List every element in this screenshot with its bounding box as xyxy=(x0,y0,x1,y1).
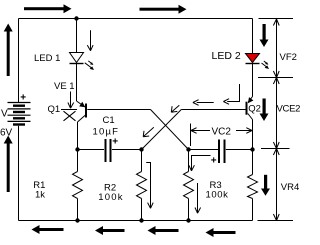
svg-text:C1: C1 xyxy=(103,115,115,126)
wire top rail xyxy=(19,18,253,20)
node junction dot C1/R2 xyxy=(139,147,143,151)
current arrow thick right middle (down, VCE2) xyxy=(260,99,269,122)
svg-text:Q1: Q1 xyxy=(48,104,61,115)
svg-text:+: + xyxy=(20,93,26,104)
svg-text:V: V xyxy=(1,109,8,120)
svg-text:100k: 100k xyxy=(98,192,123,203)
svg-text:6V: 6V xyxy=(0,128,13,139)
current arrow thick bottom 4 (left) xyxy=(206,228,236,237)
wire cross-coupling diagonal A (Q1 base to C2/R3 node) xyxy=(151,110,189,150)
resistor R3 xyxy=(184,150,194,221)
annotation arrow current down beside LED1 xyxy=(87,30,93,51)
annotation arrow current down beside R3 xyxy=(195,183,201,213)
dimension arrow VR4 xyxy=(273,149,279,221)
resistor R2 xyxy=(137,150,147,221)
dimension arrow VCE2 xyxy=(273,78,279,149)
annotation bent arrow C2 to R3 xyxy=(189,156,211,171)
capacitor C1 xyxy=(106,139,111,162)
resistor R4 xyxy=(248,150,258,221)
svg-text:10µF: 10µF xyxy=(93,127,120,138)
wire C2 left xyxy=(189,149,219,151)
annotation left arrow above Q2 base wire xyxy=(193,100,214,106)
current arrow thick top left xyxy=(24,4,72,13)
svg-text:1k: 1k xyxy=(35,190,45,201)
wire Q1 base to node xyxy=(87,109,150,111)
current arrow thick left upper (up) xyxy=(4,24,13,77)
current arrow thick bottom 3 (left) xyxy=(148,226,179,235)
dimension tick C2 level xyxy=(261,148,290,150)
wire Q2 collector down xyxy=(252,120,254,150)
svg-text:+: + xyxy=(211,156,217,167)
transistor Q1 xyxy=(77,101,87,122)
current arrow thick right upper (down, VF2) xyxy=(260,24,269,47)
wire C2 right xyxy=(226,149,253,151)
svg-text:+: + xyxy=(112,137,118,148)
annotation arrow on diagonal B lower xyxy=(143,127,154,137)
wire left side lower (battery -) xyxy=(18,126,20,221)
annotation bent arrow into Q2 base xyxy=(223,84,239,104)
dimension VC2 left tick xyxy=(190,124,192,147)
dimension tick bottom right xyxy=(258,220,294,222)
dimension VC2 arrows xyxy=(191,128,252,134)
wire cross-coupling diagonal B (Q2 base to C1/R2 node) xyxy=(142,110,182,150)
svg-text:LED 1: LED 1 xyxy=(34,53,60,64)
current arrow thick bottom 2 (left) xyxy=(95,226,125,235)
transistor Q2 xyxy=(247,97,254,120)
wire LED1 branch from top rail xyxy=(76,19,78,53)
wire LED2 to Q2 emitter xyxy=(252,64,254,97)
svg-text:VF2: VF2 xyxy=(280,52,297,63)
wire Q1 collector down xyxy=(77,122,79,150)
LED 2 (red) xyxy=(246,54,270,70)
current arrow thick right lower (down, VR4) xyxy=(261,175,270,196)
current arrow thick bottom 1 (left) xyxy=(32,225,64,234)
wire right side top (rail to LED2) xyxy=(252,19,254,54)
svg-text:VR4: VR4 xyxy=(281,182,299,193)
svg-text:Q2: Q2 xyxy=(248,104,261,115)
dimension tick top right xyxy=(259,18,294,20)
resistor R1 xyxy=(73,150,83,221)
svg-text:VCE2: VCE2 xyxy=(277,104,301,115)
svg-text:100k: 100k xyxy=(206,190,229,201)
wire bottom rail xyxy=(19,220,253,222)
svg-text:LED 2: LED 2 xyxy=(212,50,241,62)
current arrow thick left lower (up) xyxy=(4,136,13,193)
wire C1 right xyxy=(112,149,142,151)
node junction dot Q1 collector / C1 xyxy=(75,147,79,151)
svg-text:VC2: VC2 xyxy=(212,127,232,138)
wire left side upper (battery +) xyxy=(18,19,20,103)
annotation X mark below Q1 base line xyxy=(64,111,76,121)
node junction dot bottom R2 xyxy=(139,218,143,222)
wire LED1 to Q1 emitter xyxy=(76,64,78,101)
dimension tick LED2 bottom xyxy=(258,77,293,79)
annotation arrow on diagonal B upper xyxy=(171,105,179,112)
node junction dot C2/R3 xyxy=(186,147,190,151)
dimension arrow VF2 xyxy=(273,19,279,78)
wire Q2 base horizontal xyxy=(181,109,245,111)
wire C1 left xyxy=(78,149,105,151)
LED 1 xyxy=(70,53,95,71)
node junction dot top (LED1 branch) xyxy=(74,16,78,20)
annotation arrow VE1 down xyxy=(68,92,74,109)
current arrow thick top right xyxy=(140,5,187,14)
node junction dot bottom R1 xyxy=(75,218,79,222)
battery V 6V xyxy=(0,93,31,139)
annotation arrow current down beside R2 xyxy=(146,163,153,209)
node junction dot bottom R3 xyxy=(186,218,190,222)
svg-text:VE 1: VE 1 xyxy=(54,81,75,92)
capacitor C2 xyxy=(219,140,225,164)
node junction dot Q2 collector / C2 xyxy=(250,147,254,151)
annotation reference line at Q1 emitter xyxy=(61,109,77,111)
